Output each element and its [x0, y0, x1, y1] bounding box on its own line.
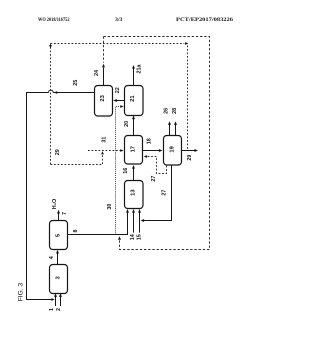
svg-text:28: 28 [172, 108, 178, 114]
dashed recycle 29: left vertical (labelled 29) with small down arrow at top [49, 44, 61, 165]
wire stream 24 out of box 23 top [94, 64, 105, 86]
svg-text:1: 1 [49, 308, 55, 311]
svg-text:WO 2018/116752: WO 2018/116752 [38, 17, 70, 23]
wire stream 8 from box 5 to box 13 bottom [68, 209, 130, 235]
separator box 5 [50, 221, 68, 250]
wire stream 21a out of box 21 top [132, 64, 142, 86]
svg-text:7: 7 [62, 212, 68, 215]
svg-text:26: 26 [164, 108, 170, 114]
wire stream 16 from box 13 to box 17 [123, 165, 135, 181]
column box 23 [95, 86, 113, 117]
wire stream 26 out of box 19 top [164, 108, 171, 136]
wire stream 4 from box 3 to box 5 [49, 250, 59, 265]
svg-text:21a: 21a [136, 64, 142, 74]
svg-text:4: 4 [49, 256, 55, 259]
wire stream 1 into box 3 [49, 293, 57, 311]
svg-text:31: 31 [102, 137, 108, 143]
svg-text:29: 29 [55, 149, 61, 155]
svg-text:8: 8 [73, 230, 79, 233]
svg-text:27: 27 [151, 176, 157, 182]
dashed bypass 30 from feed line up into box 21 [107, 105, 124, 234]
dashed line 31 into box 17 [88, 137, 124, 152]
svg-text:3/3: 3/3 [115, 17, 123, 23]
wire stream 22 from box 21 to box 23 [113, 87, 124, 102]
wire stream 2 into box 3 [56, 293, 62, 311]
svg-text:FIG. 3: FIG. 3 [17, 282, 24, 301]
svg-text:20: 20 [124, 121, 130, 127]
dashed battery-limit boundary (top, right, bottom edges; returns into feed line) [104, 37, 210, 250]
dashed alternative 27 from box 19 bottom into box 17 [144, 155, 167, 182]
dashed recycle 29: top horizontal with arrowhead [51, 42, 189, 45]
svg-text:22: 22 [115, 87, 121, 93]
svg-text:18: 18 [147, 138, 153, 144]
svg-text:29: 29 [187, 155, 193, 161]
svg-text:2: 2 [56, 308, 62, 311]
column box 17 [125, 136, 143, 165]
wire stream 29 out of box 19 right [182, 149, 199, 161]
svg-text:27: 27 [162, 190, 168, 196]
dashed battery-limit left stub down to arrow of stream 24 [103, 37, 105, 63]
wire stream 28 out of box 19 top [172, 108, 178, 136]
svg-text:H₂O: H₂O [52, 199, 58, 209]
svg-text:24: 24 [94, 70, 100, 76]
wire stream 7 (H2O) out of box 5 top [52, 199, 68, 221]
svg-text:13: 13 [131, 189, 137, 196]
svg-text:19: 19 [169, 145, 175, 152]
wire stream 18 from box 17 to box 19 [143, 138, 163, 152]
wire stream 15 into box 13 bottom [136, 209, 142, 240]
dashed recycle 29: bottom segment rising into line 31 [51, 151, 104, 164]
column box 13 [125, 181, 144, 209]
wire stream 14 into box 13 bottom [130, 209, 136, 240]
wire stream 27 from box 19 bottom joining stream 15 [141, 165, 172, 222]
column box 21 [125, 86, 144, 116]
svg-text:21: 21 [130, 95, 136, 102]
column box 19 [164, 136, 182, 166]
wire stream 20 from box 17 top into box 21 [124, 116, 135, 136]
wire stream 25 recycle from box 23 left down to stream 1 (hop over dashed line) [27, 80, 95, 301]
svg-text:25: 25 [73, 80, 79, 86]
svg-text:30: 30 [107, 204, 113, 210]
svg-text:16: 16 [123, 168, 129, 174]
svg-text:23: 23 [100, 94, 106, 101]
svg-text:15: 15 [136, 234, 142, 240]
reactor box 3 [50, 265, 68, 294]
svg-text:PCT/EP2017/083226: PCT/EP2017/083226 [176, 17, 233, 23]
svg-text:14: 14 [130, 234, 136, 240]
svg-text:17: 17 [130, 146, 136, 152]
dashed recycle 29: right vertical from stream 29 line [187, 46, 189, 151]
